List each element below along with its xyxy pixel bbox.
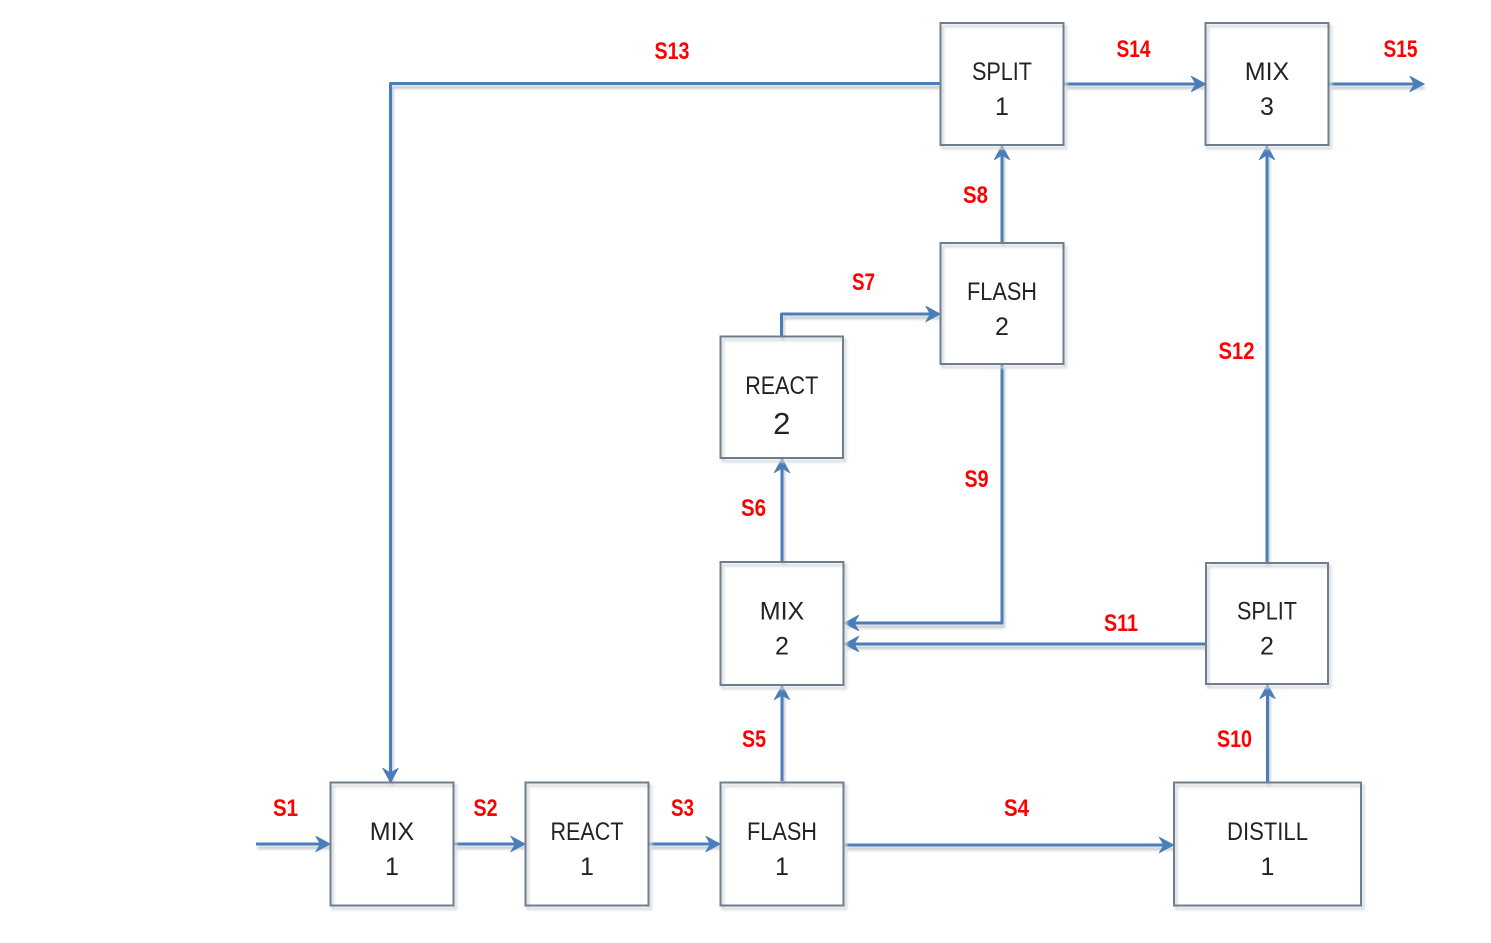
svg-text:3: 3 (1260, 93, 1274, 121)
svg-text:2: 2 (773, 406, 790, 441)
svg-text:2: 2 (775, 633, 789, 661)
svg-text:MIX: MIX (760, 598, 805, 626)
svg-text:S1: S1 (273, 795, 298, 822)
svg-text:REACT: REACT (551, 818, 624, 846)
svg-text:S10: S10 (1217, 726, 1252, 753)
svg-text:S4: S4 (1004, 795, 1030, 822)
svg-text:S11: S11 (1104, 610, 1138, 637)
svg-text:DISTILL: DISTILL (1227, 818, 1308, 846)
svg-text:S6: S6 (741, 495, 766, 522)
svg-text:1: 1 (580, 853, 594, 881)
svg-text:S12: S12 (1219, 338, 1255, 365)
svg-text:S7: S7 (852, 269, 875, 296)
svg-text:1: 1 (995, 93, 1009, 121)
svg-text:REACT: REACT (745, 372, 818, 400)
svg-text:1: 1 (775, 853, 789, 881)
svg-text:S8: S8 (963, 182, 988, 209)
svg-text:SPLIT: SPLIT (1237, 598, 1297, 626)
svg-text:1: 1 (1261, 853, 1275, 881)
svg-text:S2: S2 (474, 795, 498, 822)
svg-text:2: 2 (995, 313, 1009, 341)
svg-text:SPLIT: SPLIT (972, 58, 1032, 86)
svg-text:MIX: MIX (370, 818, 415, 846)
svg-text:MIX: MIX (1245, 58, 1290, 86)
svg-text:2: 2 (1260, 633, 1274, 661)
svg-text:S14: S14 (1117, 36, 1152, 63)
svg-text:1: 1 (385, 853, 399, 881)
svg-text:FLASH: FLASH (747, 818, 817, 846)
svg-text:S3: S3 (671, 795, 694, 822)
svg-text:S15: S15 (1384, 36, 1418, 63)
svg-text:S9: S9 (965, 466, 989, 493)
svg-text:S13: S13 (655, 38, 690, 65)
svg-text:FLASH: FLASH (967, 278, 1037, 306)
svg-text:S5: S5 (742, 726, 766, 753)
